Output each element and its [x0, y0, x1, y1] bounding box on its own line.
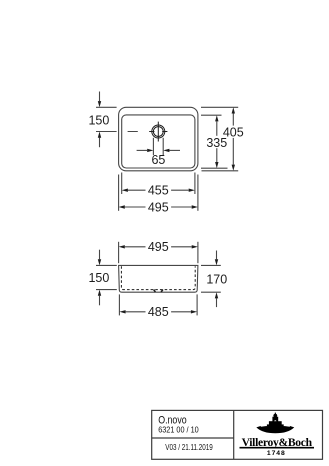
- Villeroy & Boch logo: underline rule: [240, 447, 315, 449]
- dimension 485 (front view, base width bottom): [119, 294, 197, 319]
- title block: vertical divider: [233, 410, 235, 459]
- dimension 495 (front view, top width): [119, 240, 198, 263]
- top view: outer rim of sink: [119, 107, 198, 171]
- front view: outline (tapered sides, rounded base): [119, 265, 198, 292]
- dimension 335 (top view, inner depth right): [201, 115, 228, 168]
- top view: inner basin edge: [122, 115, 195, 168]
- centre-line dash left of tap hole: [128, 131, 138, 133]
- svg-text:405: 405: [223, 125, 244, 139]
- dimension 170 (front view, overall height right): [201, 251, 227, 308]
- svg-text:495: 495: [148, 200, 169, 214]
- dimension 150 (front view, basin depth left): [88, 250, 116, 306]
- svg-text:485: 485: [148, 305, 169, 319]
- svg-text:150: 150: [88, 271, 109, 285]
- dimension 150 (top view, left): [88, 92, 116, 148]
- title block: horizontal divider (left cell): [152, 437, 234, 439]
- front view: hidden basin contour (dashed): [121, 266, 195, 289]
- title block: outer frame: [152, 410, 323, 459]
- Villeroy & Boch logo: abbey tower icon: [256, 413, 294, 434]
- svg-text:1748: 1748: [267, 450, 286, 457]
- svg-text:455: 455: [148, 184, 169, 198]
- svg-text:6321 00 / 10: 6321 00 / 10: [158, 425, 199, 435]
- dimension 455 (top view, inner width bottom): [122, 173, 195, 198]
- dimension 495 (top view, overall width bottom): [119, 175, 198, 215]
- svg-text:V03 / 21.11.2019: V03 / 21.11.2019: [165, 443, 213, 452]
- svg-text:65: 65: [151, 153, 165, 167]
- front view: drain depression ticks: [154, 290, 156, 293]
- svg-text:495: 495: [148, 240, 169, 254]
- tap hole (double circle with center ticks): [149, 122, 167, 142]
- svg-text:170: 170: [206, 273, 227, 287]
- svg-text:150: 150: [88, 114, 109, 128]
- dimension 405 (top view, overall depth right): [201, 107, 244, 171]
- dimension 65 (tap hole spacing): [137, 138, 180, 167]
